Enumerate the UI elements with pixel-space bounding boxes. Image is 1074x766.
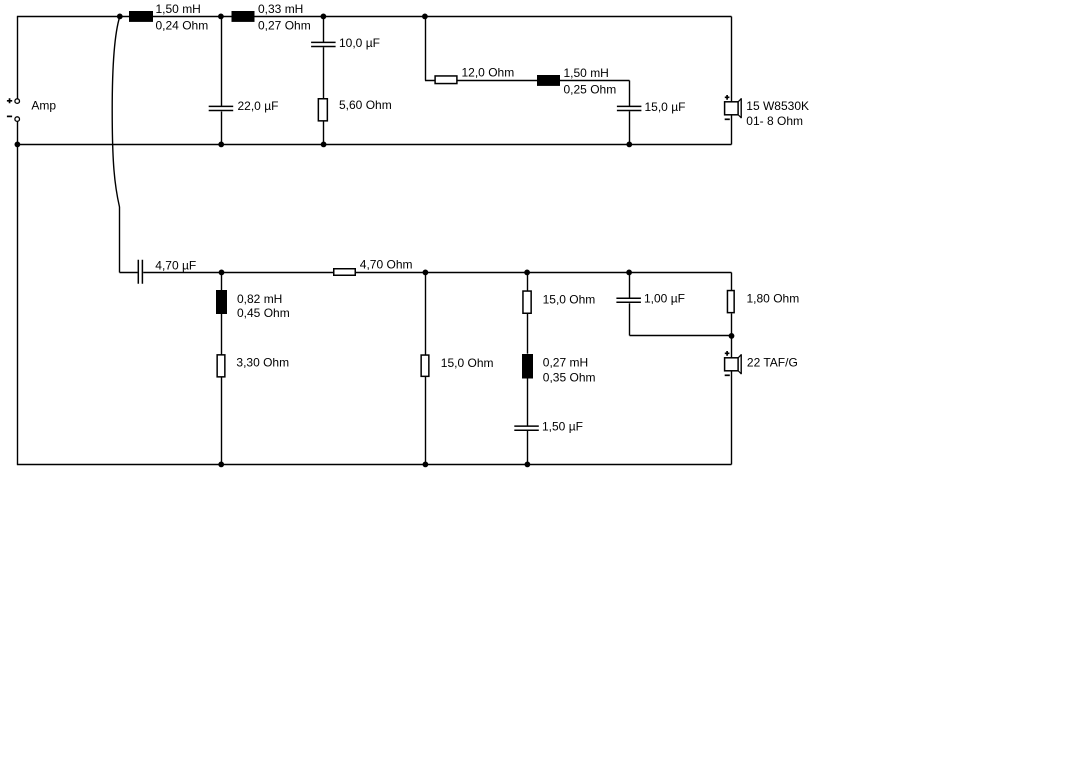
svg-text:0,33 mH: 0,33 mH — [258, 2, 303, 16]
wire: mid return rail — [17, 144, 732, 146]
node: notch to mid rail — [626, 142, 632, 148]
wire: R15 mid upper lead — [425, 273, 427, 355]
resistor R 4,70 Ohm series — [334, 269, 356, 276]
svg-text:0,82 mH: 0,82 mH — [237, 292, 282, 306]
capacitor C 10,0 uF — [311, 42, 336, 46]
node: C22 to mid rail — [218, 142, 224, 148]
svg-text:22 TAF/G: 22 TAF/G — [747, 356, 798, 370]
node: junction tweeter rail / L3 branch — [219, 270, 225, 276]
svg-text:1,80 Ohm: 1,80 Ohm — [747, 292, 800, 306]
svg-text:22,0 µF: 22,0 µF — [238, 99, 279, 113]
svg-text:1,50 µF: 1,50 µF — [542, 420, 583, 434]
inductor L2 0.33 mH — [232, 11, 255, 22]
wire: R5.6 lower lead — [323, 121, 325, 144]
wire: top rail (+) from amp to woofer — [17, 16, 732, 18]
svg-text:0,27 Ohm: 0,27 Ohm — [258, 19, 311, 33]
svg-text:0,27 mH: 0,27 mH — [543, 355, 588, 369]
wire: C1.5 to bottom rail — [527, 431, 529, 465]
label: - sign of amp — [7, 115, 12, 117]
inductor L1 1.50 mH — [129, 11, 153, 22]
node: tweeter tap on top rail — [117, 14, 123, 20]
node: junction tweeter rail / RLC branch — [524, 270, 530, 276]
resistor R 5,60 Ohm — [318, 99, 327, 121]
wire: bottom return rail — [17, 464, 732, 466]
wire: woofer - down to mid rail — [731, 115, 733, 145]
label: woofer - polarity — [725, 118, 730, 120]
svg-text:0,45 Ohm: 0,45 Ohm — [237, 306, 290, 320]
svg-text:4,70 µF: 4,70 µF — [155, 259, 196, 273]
wire: C10 to R5.6 — [323, 47, 325, 98]
node: RC branch to mid rail — [321, 142, 327, 148]
resistor R 15,0 Ohm branch — [523, 291, 531, 313]
label: tweeter - polarity — [725, 374, 730, 376]
svg-text:10,0 µF: 10,0 µF — [339, 36, 380, 50]
svg-text:Amp: Amp — [31, 98, 56, 112]
svg-text:1,50 mH: 1,50 mH — [156, 2, 201, 16]
loudspeaker LS2 22 TAF/G — [725, 358, 739, 371]
svg-text:15,0 Ohm: 15,0 Ohm — [441, 356, 494, 370]
svg-text:5,60 Ohm: 5,60 Ohm — [339, 98, 392, 112]
resistor R 3,30 Ohm — [217, 355, 225, 377]
wire: L3 upper lead — [221, 273, 223, 291]
resistor R 1,80 Ohm — [727, 291, 734, 313]
node: junction top rail / notch filter — [422, 14, 428, 20]
wire: L5 to C1.5 — [527, 378, 529, 426]
node: R1.8 / C1.0 junction — [729, 333, 735, 339]
svg-text:4,70 Ohm: 4,70 Ohm — [360, 258, 413, 272]
svg-text:0,35 Ohm: 0,35 Ohm — [543, 371, 596, 385]
node: junction tweeter rail / R15 mid branch — [423, 270, 429, 276]
wire: R15b to L5 — [527, 314, 529, 354]
wire: R3.3 to bottom rail — [221, 378, 223, 465]
wire: C1.0 lower lead and across to R1.8 — [630, 303, 732, 335]
node: R15 mid to bottom rail — [423, 462, 429, 468]
wire: C1.0 upper lead — [629, 273, 631, 299]
wire: L4 to corner, down to C15 — [560, 81, 630, 107]
svg-text:1,00 µF: 1,00 µF — [644, 292, 685, 306]
resistor R 12,0 Ohm — [435, 76, 457, 84]
capacitor C 4,70 uF — [138, 260, 142, 284]
resistor R 15,0 Ohm mid — [421, 355, 429, 376]
inductor L3 0.82 mH — [216, 290, 227, 314]
capacitor C 15,0 uF — [617, 106, 642, 110]
capacitor C 1,50 uF — [514, 426, 539, 430]
svg-text:15 W8530K: 15 W8530K — [746, 99, 809, 113]
label: + sign of amp — [7, 98, 12, 103]
node: junction tweeter rail / C1.0 branch — [626, 270, 632, 276]
wire: C10 upper lead — [323, 17, 325, 43]
terminal: amp - — [15, 117, 20, 122]
capacitor C 1,00 uF — [616, 298, 641, 302]
wire: tweeter - down to bottom rail — [731, 371, 733, 465]
wire: tweeter feed into C4.7 — [120, 272, 138, 274]
wire: amp + feed down — [17, 17, 19, 99]
wire: down to tweeter + — [731, 336, 733, 358]
svg-text:3,30 Ohm: 3,30 Ohm — [236, 356, 289, 370]
wire: amp - feed down — [17, 121, 19, 144]
wire: notch drop — [425, 17, 435, 81]
label: tweeter + polarity — [725, 351, 730, 356]
node: RLC branch to bottom rail — [525, 462, 531, 468]
wire: C15 lower lead — [629, 111, 631, 144]
label: woofer + polarity — [725, 95, 730, 100]
terminal: amp + — [15, 99, 20, 104]
svg-text:15,0 Ohm: 15,0 Ohm — [543, 292, 596, 306]
wire: C22 lower lead — [221, 112, 223, 145]
capacitor C 22,0 uF — [209, 106, 234, 110]
inductor L4 1.50 mH — [537, 75, 560, 86]
wire: left vertical bus down to tweeter return — [17, 145, 19, 465]
svg-text:15,0 µF: 15,0 µF — [645, 100, 686, 114]
svg-text:0,24 Ohm: 0,24 Ohm — [156, 19, 209, 33]
svg-text:12,0 Ohm: 12,0 Ohm — [462, 65, 515, 79]
wire: R15b upper lead — [527, 273, 529, 291]
node: amp - junction — [15, 142, 21, 148]
wire: L3 to R3.3 — [221, 314, 223, 355]
wire: top rail down to woofer + — [731, 17, 733, 102]
svg-text:1,50 mH: 1,50 mH — [564, 66, 609, 80]
wire: R15 mid lower lead — [425, 377, 427, 465]
wire: C22 upper lead — [221, 17, 223, 107]
wire: R1.8 lower lead — [731, 314, 733, 337]
wire: tweeter top rail — [143, 272, 731, 274]
wire: tweeter rail corner down to R1.8 — [731, 273, 733, 291]
node: junction top rail / C 22uF — [218, 14, 224, 20]
svg-text:01- 8 Ohm: 01- 8 Ohm — [746, 114, 803, 128]
svg-text:0,25 Ohm: 0,25 Ohm — [564, 83, 617, 97]
node: junction top rail / RC branch — [321, 14, 327, 20]
loudspeaker LS2 horn — [738, 355, 741, 374]
wire: curved branch to tweeter filter — [112, 17, 120, 273]
inductor L5 0.27 mH — [522, 354, 533, 379]
loudspeaker LS1 horn — [738, 99, 741, 118]
loudspeaker LS1 15 W8530K — [725, 102, 739, 115]
wire: R12 to L4 — [458, 80, 538, 82]
node: L3 branch to bottom rail — [218, 462, 224, 468]
